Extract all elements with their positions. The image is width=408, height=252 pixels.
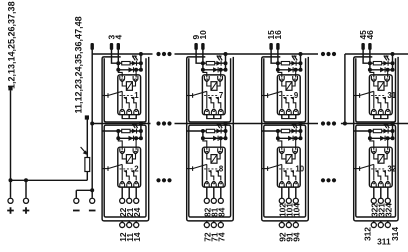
pin A col3: [269, 43, 272, 50]
junction row2 clampR upper col3: [294, 68, 298, 72]
junction row2 clampR upper col1: [134, 68, 138, 72]
diode suppressor upper col2: [213, 67, 218, 72]
wire stub 1 to terminal col1: [121, 187, 123, 198]
wire row2 upper col1: [118, 69, 141, 71]
wire coil left feed lower col1: [122, 153, 126, 159]
wire row1 upper col2: [203, 62, 226, 64]
wire row2 upper col4: [370, 69, 393, 71]
svg-text:74: 74: [216, 232, 226, 242]
terminal circle 84 col2: [218, 198, 223, 203]
wire lower feed from outer edge col4: [354, 130, 370, 132]
wire column4 bus bridge: [344, 54, 346, 124]
junction LED bus lower col2: [224, 122, 228, 126]
junction row2 left upper col1: [116, 68, 120, 72]
terminal circle minus 2: [90, 198, 95, 203]
LED indicator lower col2: [216, 129, 221, 134]
relay box upper col3: [277, 75, 300, 115]
LED indicator upper col2: [216, 61, 221, 66]
wire LED vert ext upper col3: [300, 63, 302, 70]
wire middle bus segment 3: [341, 123, 408, 125]
wire coil left feed upper col1: [122, 80, 126, 86]
terminal circle plus 2: [23, 198, 28, 203]
junction plus rail at terminal 2: [24, 178, 28, 182]
junction row1 left lower col2: [201, 129, 205, 133]
coil clamp right upper col3: [293, 76, 298, 81]
diode suppressor lower col4: [380, 136, 385, 141]
LED indicator upper col1: [132, 61, 137, 66]
contact arm upper col4: [360, 91, 374, 95]
resistor input upper col1: [122, 62, 130, 65]
wire coil clamp R drop lower col4: [387, 138, 389, 150]
contact clamp 3 lower col4: [385, 182, 390, 187]
contact clamp 1 lower col4: [371, 182, 376, 187]
contact common stub upper col1: [102, 95, 108, 97]
wire coil clamp R drop upper col4: [387, 70, 389, 78]
relay box lower col3: [277, 147, 300, 187]
wire row1 lower col4: [370, 130, 393, 132]
pin A col4: [361, 43, 364, 50]
ellipsis continuation dots b middle row: [321, 121, 325, 125]
contact common stub lower col1: [102, 168, 108, 170]
contact common stub upper col4: [354, 95, 360, 97]
wire coil right feed lower col3: [292, 153, 295, 159]
svg-text:10: 10: [295, 164, 304, 173]
wire stub bar upper col1: [122, 118, 137, 120]
wire top bus segment 3: [345, 53, 408, 55]
arrow actuation on fuse: [81, 147, 87, 154]
junction LED bus lower col1: [139, 122, 143, 126]
contact fixed NO upper col1: [131, 98, 136, 108]
coil clamp left upper col3: [279, 76, 284, 81]
wire coil clamp R drop upper col3: [295, 70, 297, 78]
coil clamp right upper col2: [218, 76, 223, 81]
wire arm to clamp1 lower col1: [121, 164, 123, 180]
junction row2 left lower col1: [116, 136, 120, 140]
coil clamp right lower col4: [385, 148, 390, 153]
wire arm to clamp1 lower col3: [281, 164, 283, 180]
LED indicator lower col3: [291, 129, 296, 134]
wire coil left feed upper col3: [282, 80, 286, 86]
wire coil right feed lower col2: [217, 153, 220, 159]
wire middle bus segment 1: [92, 123, 150, 125]
wire coil clamp R drop lower col1: [135, 138, 137, 150]
wire stub 3 upper col1: [135, 115, 137, 119]
contact clamp 1 lower col1: [120, 182, 125, 187]
junction row2 clampR upper col4: [386, 68, 390, 72]
contact clamp 1 lower col2: [204, 182, 209, 187]
terminal circle 101 col3: [286, 198, 291, 203]
wire coil right feed upper col3: [292, 80, 295, 86]
wire LED riser lower col1: [140, 124, 142, 132]
wire coil left feed lower col3: [282, 153, 286, 159]
wire stub outer 2 col3: [288, 221, 290, 222]
ellipsis continuation dots b bottom row: [321, 178, 325, 182]
pin B col2: [201, 43, 204, 50]
wire top bus segment 1: [92, 53, 152, 55]
wire row link lower col2: [202, 131, 204, 138]
junction row1 right lower col4: [391, 129, 395, 133]
wire stub outer 3 col3: [295, 221, 297, 222]
wire coil clamp R drop lower col3: [295, 138, 297, 150]
wire lower feed from outer edge col3: [262, 130, 278, 132]
terminal circle 314 col4: [385, 222, 390, 227]
contact common stub lower col4: [354, 168, 360, 170]
wire row2 lower col1: [118, 137, 141, 139]
wire stub 1 upper col1: [121, 115, 123, 119]
pin B col1: [117, 43, 120, 50]
contact fixed NC lower col3: [283, 171, 288, 181]
terminal circle 72 col2: [204, 222, 209, 227]
wire stub 3 upper col3: [295, 115, 297, 119]
terminal circle plus 1: [8, 198, 13, 203]
contact clamp 3 lower col3: [293, 182, 298, 187]
svg-text:324: 324: [383, 203, 393, 217]
junction column4 bridge / middle bus: [343, 122, 347, 126]
svg-text:46: 46: [365, 30, 375, 40]
wire coil left feed upper col4: [374, 80, 378, 86]
junction row2 clampR lower col4: [386, 136, 390, 140]
label minus sign 1: [73, 210, 80, 212]
diode suppressor upper col3: [288, 67, 293, 72]
wire pin B feed col4: [369, 50, 371, 63]
contact common stub lower col3: [262, 168, 268, 170]
contact link dashed lower col1: [120, 168, 135, 170]
wire LED vert ext upper col4: [392, 63, 394, 70]
junction row1 left lower col4: [368, 129, 372, 133]
contact clamp 3 upper col4: [385, 110, 390, 115]
wire row2 lower col2: [203, 137, 226, 139]
terminal circle 312 col4: [371, 222, 376, 227]
wire stub bar upper col3: [281, 118, 296, 120]
contact fixed NC upper col2: [208, 98, 213, 108]
LED indicator upper col4: [383, 61, 388, 66]
wire row2 lower col3: [278, 137, 301, 139]
wire stub 3 to terminal col1: [135, 187, 137, 198]
contact clamp 2 lower col4: [378, 182, 383, 187]
wire stub outer 1 col2: [206, 221, 208, 222]
upper cell box col3: [264, 58, 306, 122]
diode suppressor upper col4: [380, 67, 385, 72]
junction row1 right upper col1: [139, 61, 143, 65]
junction row2 clampR lower col1: [134, 136, 138, 140]
wire row1 upper col3: [278, 62, 301, 64]
contact link dashed lower col3: [279, 168, 294, 170]
svg-text:104: 104: [291, 203, 301, 217]
wire row link lower col4: [369, 131, 371, 138]
wire to plus terminal 2: [25, 180, 27, 198]
wire LED riser upper col4: [392, 54, 394, 63]
junction row1 right upper col4: [391, 61, 395, 65]
wire arm to clamp1 upper col2: [206, 91, 208, 108]
contact link dashed upper col3: [279, 95, 294, 97]
svg-text:31: 31: [387, 91, 396, 100]
terminal circle 81 col2: [211, 198, 216, 203]
junction row1 left upper col3: [276, 61, 280, 65]
terminal circle 321 col4: [378, 198, 383, 203]
junction row1 left upper col1: [116, 61, 120, 65]
contact fixed NO lower col3: [291, 171, 296, 181]
LED indicator upper col3: [291, 61, 296, 66]
outer module box col3: [262, 57, 309, 221]
terminal circle 94 col3: [293, 222, 298, 227]
junction row1 right lower col1: [139, 129, 143, 133]
contact fixed NO upper col2: [216, 98, 221, 108]
node minus-bus marker square: [85, 115, 89, 119]
junction row2 left lower col4: [368, 136, 372, 140]
junction row2 right lower col1: [139, 136, 143, 140]
wire stub 2 upper col1: [128, 115, 130, 119]
wire coil clamp L drop lower col4: [370, 138, 374, 150]
relay coil lower col3: [286, 155, 292, 164]
svg-text:314: 314: [390, 227, 400, 241]
junction LED bus lower col3: [299, 122, 303, 126]
diode suppressor lower col3: [288, 136, 293, 141]
contact common stub lower col2: [187, 168, 193, 170]
contact arm lower col4: [360, 164, 374, 168]
junction row2 right lower col4: [391, 136, 395, 140]
coil clamp left upper col4: [371, 76, 376, 81]
svg-text:8: 8: [219, 164, 224, 173]
resistor input lower col2: [206, 129, 214, 132]
wire stub outer 2 col1: [128, 221, 130, 222]
wire LED vert ext upper col2: [225, 63, 227, 70]
wire stub outer 3 col2: [220, 221, 222, 222]
wire stub outer 1 col4: [373, 221, 375, 222]
coil clamp right lower col2: [218, 148, 223, 153]
relay box upper col4: [369, 75, 392, 115]
wire row1 lower col1: [118, 130, 141, 132]
pin B col4: [368, 43, 371, 50]
wire minus rail vertical: [91, 50, 93, 190]
terminal circle 71 col2: [211, 222, 216, 227]
contact clamp 3 upper col2: [218, 110, 223, 115]
contact clamp 3 lower col2: [218, 182, 223, 187]
wire minus terminal 1 up: [75, 190, 77, 198]
wire LED riser upper col1: [140, 54, 142, 63]
svg-text:1: 1: [134, 91, 139, 100]
junction row2 left upper col3: [276, 68, 280, 72]
wire arm to clamp1 lower col2: [206, 164, 208, 180]
contact link dashed upper col2: [204, 95, 219, 97]
diode suppressor lower col2: [213, 136, 218, 141]
resistor input upper col2: [206, 62, 214, 65]
terminal circle minus 1: [74, 198, 79, 203]
contact link dashed upper col4: [371, 95, 386, 97]
terminal circle 12 col1: [120, 222, 125, 227]
relay box upper col1: [118, 75, 141, 115]
terminal circle 11 col1: [127, 222, 132, 227]
svg-text:312: 312: [362, 227, 372, 241]
junction LED bus upper col4: [391, 52, 395, 56]
junction row2 clampR lower col3: [294, 136, 298, 140]
coil clamp right upper col4: [385, 76, 390, 81]
wire stub 1 to terminal col4: [373, 187, 375, 198]
svg-text:16: 16: [273, 30, 283, 40]
pin A col1: [110, 43, 113, 50]
upper cell box col4: [356, 58, 396, 122]
contact link dashed lower col4: [371, 168, 386, 170]
contact clamp 2 upper col4: [378, 110, 383, 115]
fuse F1: [85, 158, 90, 172]
wire LED vert ext lower col2: [225, 131, 227, 138]
wire arm to clamp1 upper col4: [373, 91, 375, 108]
junction row2 left lower col2: [201, 136, 205, 140]
wire coil right feed upper col2: [217, 80, 220, 86]
contact clamp 3 upper col1: [134, 110, 139, 115]
wire coil right feed lower col4: [384, 153, 387, 159]
relay box lower col1: [118, 147, 141, 187]
relay coil upper col1: [126, 82, 132, 91]
coil clamp left lower col3: [279, 148, 284, 153]
wire fuse branch riser: [86, 172, 88, 181]
contact clamp 1 upper col2: [204, 110, 209, 115]
contact fixed NC upper col4: [375, 98, 380, 108]
junction row2 left upper col4: [368, 68, 372, 72]
lower cell box col1: [104, 125, 146, 217]
junction LED bus upper col2: [224, 52, 228, 56]
outer module box col2: [187, 57, 234, 221]
junction LED bus upper col1: [139, 52, 143, 56]
wire coil left feed lower col2: [207, 153, 211, 159]
wire row2 lower col4: [370, 137, 393, 139]
wire stub outer 3 col4: [387, 221, 389, 222]
wire LED riser lower col2: [225, 124, 227, 132]
wire coil clamp L drop upper col3: [278, 70, 282, 78]
svg-text:11,12,23,24,35,36,47,48: 11,12,23,24,35,36,47,48: [73, 16, 83, 113]
wire coil clamp L drop lower col2: [203, 138, 207, 150]
wire coil clamp L drop upper col4: [370, 70, 374, 78]
wire top bus segment 2: [175, 53, 319, 55]
contact clamp 2 lower col3: [286, 182, 291, 187]
contact arm upper col2: [193, 91, 207, 95]
coil clamp left lower col2: [204, 148, 209, 153]
terminal circle 324 col4: [385, 198, 390, 203]
wire stub 2 to terminal col4: [380, 187, 382, 198]
outer module box col1: [102, 57, 149, 221]
outer module box col4: [354, 57, 398, 221]
contact fixed NO upper col3: [291, 98, 296, 108]
junction LED bus upper col3: [299, 52, 303, 56]
ellipsis continuation dots a top row: [156, 52, 160, 56]
contact arm upper col1: [108, 91, 122, 95]
relay coil upper col2: [211, 82, 217, 91]
wire row link upper col3: [277, 63, 279, 70]
contact link dashed lower col2: [204, 168, 219, 170]
lower cell box col4: [356, 125, 396, 217]
relay coil upper col3: [286, 82, 292, 91]
terminal circle 21 col1: [127, 198, 132, 203]
coil clamp left lower col4: [371, 148, 376, 153]
svg-text:32: 32: [387, 164, 396, 173]
wire coil left feed lower col4: [374, 153, 378, 159]
relay coil lower col2: [211, 155, 217, 164]
wire stub outer 1 col3: [281, 221, 283, 222]
contact arm lower col1: [108, 164, 122, 168]
upper cell box col2: [189, 58, 231, 122]
wire stub 3 to terminal col4: [387, 187, 389, 198]
wire lower feed from outer edge col2: [187, 130, 203, 132]
svg-text:2: 2: [134, 164, 139, 173]
wire LED riser lower col3: [300, 124, 302, 132]
contact fixed NC lower col1: [124, 171, 129, 181]
contact fixed NO lower col1: [131, 171, 136, 181]
contact clamp 2 upper col1: [127, 110, 132, 115]
wire lower feed from outer edge col1: [102, 130, 118, 132]
label minus sign 2: [89, 210, 96, 212]
wire plus rail horizontal: [11, 179, 88, 181]
LED indicator lower col1: [132, 129, 137, 134]
junction row1 right lower col3: [299, 129, 303, 133]
wire row2 upper col3: [278, 69, 301, 71]
wire coil right feed upper col1: [132, 80, 135, 86]
wire coil right feed lower col1: [132, 153, 135, 159]
relay coil lower col1: [126, 155, 132, 164]
wire pin A elbow col4: [363, 50, 370, 63]
wire plus rail vertical: [10, 90, 12, 180]
junction minus link: [90, 188, 94, 192]
wire pin A elbow col1: [112, 50, 119, 63]
terminal circle 102 col3: [279, 198, 284, 203]
wire stub 2 to terminal col2: [213, 187, 215, 198]
svg-text:14: 14: [132, 232, 142, 242]
svg-text:311: 311: [377, 237, 391, 247]
wire stub 2 to terminal col1: [128, 187, 130, 198]
wire LED riser upper col3: [300, 54, 302, 63]
svg-text:10: 10: [198, 30, 208, 40]
junction LED bus lower col4: [391, 122, 395, 126]
ellipsis continuation dots a bottom row: [156, 178, 160, 182]
lower cell box col3: [264, 125, 306, 217]
wire arm to clamp1 lower col4: [373, 164, 375, 180]
junction row1 left lower col1: [116, 129, 120, 133]
contact arm lower col3: [268, 164, 282, 168]
wire pin A elbow col3: [271, 50, 278, 63]
wire row link lower col1: [117, 131, 119, 138]
wire row1 upper col1: [118, 62, 141, 64]
wire stub outer 1 col1: [121, 221, 123, 222]
wire stub 2 upper col4: [380, 115, 382, 119]
svg-text:94: 94: [291, 232, 301, 242]
terminal circle 92 col3: [279, 222, 284, 227]
relay coil upper col4: [378, 82, 384, 91]
wire LED riser lower col4: [392, 124, 394, 132]
wire stub 1 upper col2: [206, 115, 208, 119]
pin A col2: [194, 43, 197, 50]
junction row2 clampR upper col2: [219, 68, 223, 72]
contact arm upper col3: [268, 91, 282, 95]
upper cell box col1: [104, 58, 146, 122]
relay box lower col4: [369, 147, 392, 187]
junction row2 right upper col3: [299, 68, 303, 72]
contact arm lower col2: [193, 164, 207, 168]
wire stub 3 to terminal col3: [295, 187, 297, 198]
lower cell box col2: [189, 125, 231, 217]
diode suppressor lower col1: [129, 136, 134, 141]
wire stub 2 upper col3: [288, 115, 290, 119]
ellipsis continuation dots a middle row: [156, 121, 160, 125]
contact clamp 2 lower col2: [211, 182, 216, 187]
contact clamp 1 upper col1: [120, 110, 125, 115]
wire stub bar upper col2: [206, 118, 221, 120]
terminal circle 82 col2: [204, 198, 209, 203]
relay coil lower col4: [378, 155, 384, 164]
wire coil clamp L drop lower col3: [278, 138, 282, 150]
wire pin B feed col2: [202, 50, 204, 63]
wire minus link: [76, 189, 92, 191]
wire to plus terminal 1: [10, 180, 12, 198]
wire pin A elbow col2: [196, 50, 203, 63]
coil clamp right lower col1: [133, 148, 138, 153]
